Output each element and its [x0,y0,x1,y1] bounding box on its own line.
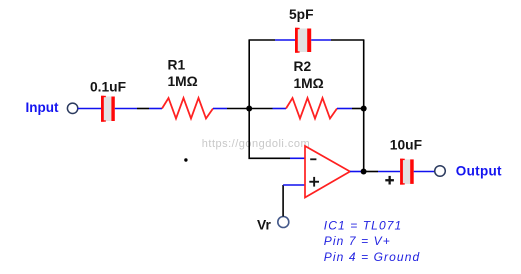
polarity plus of C3 [385,176,394,185]
op-amp U1 [305,146,350,198]
node A junction [246,106,252,112]
pin label plus [309,177,319,187]
pin label minus [310,158,316,160]
node B junction [361,106,367,112]
wire node A down to inverting input [249,109,290,159]
wire feedback right vertical [363,40,365,172]
terminal Vr [278,217,289,228]
wire feedback top left [249,39,276,41]
stray node dot [184,158,187,161]
wire C3 to output terminal [414,171,435,173]
svg-text:IC1 = TL071: IC1 = TL071 [324,218,402,232]
svg-text:R1: R1 [168,57,186,72]
terminal Output [435,166,446,177]
capacitor C3 10uF [400,159,414,185]
svg-text:0.1uF: 0.1uF [90,80,126,95]
svg-text:Output: Output [456,163,502,178]
svg-text:https://gongdoli.com: https://gongdoli.com [202,138,310,150]
resistor R2 [286,98,337,119]
capacitor C2 5pF [295,28,311,53]
svg-text:Input: Input [26,100,59,115]
wire node C to C3 [364,171,378,173]
wire Vr to non-inverting input [282,185,284,216]
wire input to C1 [78,108,101,110]
svg-text:1MΩ: 1MΩ [168,74,198,89]
wire R1 to node A [213,108,227,110]
svg-text:Vr: Vr [257,217,271,232]
wire R2 to node B [337,108,352,110]
node C junction [361,169,367,175]
svg-text:10uF: 10uF [390,137,422,152]
wire node A to R2 [249,108,272,110]
terminal Input [67,103,77,113]
wire C1 to R1 [115,108,137,110]
resistor R1 [162,98,213,119]
svg-text:Pin 7 = V+: Pin 7 = V+ [324,234,391,248]
svg-text:Pin 4 = Ground: Pin 4 = Ground [324,250,420,264]
capacitor C1 0.1uF [101,96,115,122]
wire C2 to right vertical [311,39,331,41]
wire feedback left vertical [248,40,250,109]
svg-text:5pF: 5pF [289,7,314,22]
svg-text:1MΩ: 1MΩ [294,76,324,91]
wire op-amp output to node C [350,171,361,173]
svg-text:R2: R2 [294,59,312,74]
